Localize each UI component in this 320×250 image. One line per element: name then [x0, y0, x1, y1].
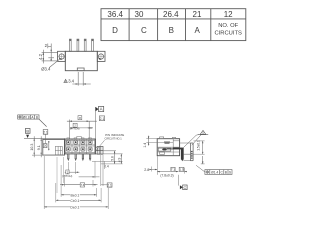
svg-text:21: 21: [193, 10, 202, 19]
top view pin 3: [84, 39, 86, 51]
front view hole height dim arrows: [48, 141, 49, 150]
svg-text:2.1: 2.1: [100, 117, 105, 121]
top view dim 2: [45, 43, 54, 60]
revision triangle: [184, 130, 209, 147]
svg-text:7.6: 7.6: [81, 183, 85, 187]
svg-text:(PITCH): (PITCH): [70, 127, 80, 131]
top view dim 3.4 bottom: [64, 72, 91, 86]
lower dim row 7.62: [60, 176, 98, 188]
position tolerance frame top left: [18, 115, 47, 127]
left vertical dim 9.1: [37, 136, 42, 157]
svg-text:D±0.1: D±0.1: [70, 205, 79, 209]
side view molded marking: [164, 142, 170, 143]
pin indicate note: [96, 133, 124, 151]
dim 0.4 pin tip: [92, 161, 123, 169]
svg-text:B±0.1: B±0.1: [70, 193, 79, 197]
top view body: [65, 51, 97, 70]
top view pin 2: [77, 39, 79, 51]
left vertical dim 10.3: [30, 136, 64, 157]
side dim 2.8: [144, 156, 157, 175]
dimension table: [101, 9, 246, 41]
extension lines from left ear block: [57, 157, 63, 193]
front view pcb pin 2: [75, 154, 77, 161]
front view body: [65, 139, 96, 154]
svg-text:CIRCUITS: CIRCUITS: [215, 31, 243, 37]
front view right ear block: [96, 146, 104, 154]
top view pin 4: [92, 39, 94, 51]
side dim 7.8: [157, 168, 187, 178]
datum A flag: [96, 106, 104, 139]
svg-text:A: A: [100, 107, 103, 112]
dim D row: [44, 156, 108, 209]
side dim 1.4: [143, 136, 157, 148]
right vertical dim 5.8: [103, 151, 116, 164]
top view right mounting ear: [97, 51, 105, 61]
svg-text:(7.8±0.3): (7.8±0.3): [160, 173, 173, 177]
table row letters: [112, 26, 200, 35]
top view pin 1: [69, 39, 71, 51]
top view left mounting ear: [58, 51, 66, 61]
svg-text:B: B: [36, 115, 38, 119]
svg-text:1.4: 1.4: [143, 143, 147, 148]
svg-text:3.4: 3.4: [68, 79, 74, 84]
svg-text:D: D: [112, 26, 118, 35]
side view body: [157, 139, 179, 156]
svg-text:Ø1.4: Ø1.4: [211, 171, 218, 175]
top view dim 4.2: [38, 50, 57, 64]
svg-text:A: A: [195, 26, 201, 35]
svg-text:4.2: 4.2: [38, 53, 43, 59]
boxed dim 2.1 left: [43, 130, 48, 144]
side view contact slot: [158, 148, 173, 151]
front view pcb pin 1: [68, 154, 70, 161]
svg-text:9.1: 9.1: [37, 145, 41, 150]
svg-text:5.8: 5.8: [110, 156, 114, 161]
svg-text:CIRCUIT NO.1: CIRCUIT NO.1: [105, 137, 122, 141]
front view left ear plate: [43, 139, 65, 155]
table header values: [107, 10, 233, 19]
svg-text:NO. OF: NO. OF: [218, 23, 238, 29]
side view inner lines: [157, 139, 179, 156]
svg-text:30: 30: [135, 10, 144, 19]
datum C flag: [178, 175, 187, 190]
front view cavity row 1: [66, 140, 92, 144]
svg-text:(PITCH): (PITCH): [62, 174, 72, 178]
svg-text:1.5: 1.5: [179, 168, 184, 172]
svg-text:Ø0.8: Ø0.8: [23, 115, 30, 119]
svg-text:2.8: 2.8: [144, 168, 149, 172]
lower dim row 2.54 pitch: [62, 162, 79, 178]
side view flange to plate lines: [180, 143, 191, 161]
boxed dim 2.1 row: [101, 155, 112, 187]
svg-text:2.1: 2.1: [107, 183, 112, 187]
front view top keying bumps: [67, 137, 92, 140]
datum B flag left: [24, 129, 65, 139]
top view dim dia 3.4 leader: [41, 59, 60, 72]
svg-text:C: C: [141, 26, 147, 35]
front view cavity row 2: [66, 147, 92, 151]
dim B row: [61, 165, 96, 197]
svg-text:B: B: [26, 129, 29, 134]
dim C row: [56, 183, 101, 203]
svg-text:12: 12: [224, 10, 233, 19]
side rotated dim 1.5: [183, 140, 204, 154]
top view body bottom notch: [77, 68, 84, 71]
svg-text:C: C: [184, 186, 187, 190]
front view pcb pin 3: [82, 154, 84, 161]
side view right angle pin: [173, 148, 183, 161]
right vertical dim 4.9: [96, 154, 123, 164]
svg-text:2.1: 2.1: [43, 130, 48, 134]
svg-text:7.1: 7.1: [171, 168, 176, 172]
svg-text:1.5±0.1: 1.5±0.1: [197, 140, 201, 151]
front view left ear inner block: [55, 146, 62, 154]
table cell NO. OF CIRCUITS: [215, 23, 243, 36]
svg-text:10.3: 10.3: [30, 144, 34, 151]
position tolerance frame right: [196, 156, 232, 175]
side boxed dims: [171, 167, 184, 171]
side view top notch: [160, 137, 176, 139]
svg-text:B: B: [169, 26, 174, 35]
svg-text:26.4: 26.4: [163, 10, 179, 19]
svg-text:C±0.1: C±0.1: [70, 199, 79, 203]
side view pcb plate: [191, 143, 194, 161]
boxed dim 2.1 right: [99, 116, 104, 121]
front view pcb pin 4: [89, 154, 91, 161]
front view body inner walls: [65, 139, 96, 154]
lower dim row to body edge: [79, 162, 100, 179]
svg-text:36.4: 36.4: [107, 10, 123, 19]
upper dim line row 2: [70, 123, 93, 130]
upper dim line row 1: [67, 116, 97, 139]
